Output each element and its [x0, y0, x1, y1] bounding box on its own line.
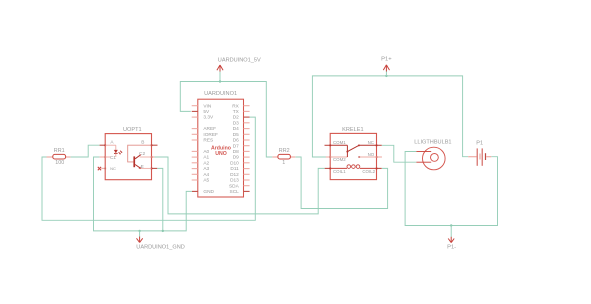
svg-text:E: E: [141, 164, 144, 170]
svg-text:A1: A1: [203, 155, 209, 161]
svg-text:D13: D13: [230, 178, 239, 184]
wire net bulb top to battery minus: [405, 152, 497, 226]
svg-text:RR1: RR1: [54, 148, 65, 154]
svg-text:D11: D11: [230, 166, 239, 172]
pin C2 of UOPT1: [139, 151, 154, 157]
svg-text:P1: P1: [476, 141, 483, 147]
battery P1: [468, 141, 491, 166]
wire net 5V rail: [180, 82, 272, 158]
svg-text:SCL: SCL: [230, 189, 240, 195]
svg-text:COM1: COM1: [333, 140, 346, 145]
supply symbol P1+: [381, 57, 392, 78]
svg-text:NC: NC: [368, 140, 374, 145]
resistor RR2: [272, 148, 295, 166]
svg-text:AREF: AREF: [203, 126, 216, 132]
LED inside UOPT1: [105, 145, 122, 157]
svg-text:IOREF: IOREF: [203, 132, 218, 138]
svg-text:D2: D2: [233, 115, 239, 121]
wire RR1 right to opto pin A: [70, 145, 99, 157]
svg-text:A2: A2: [203, 160, 209, 166]
svg-text:D5: D5: [233, 132, 239, 138]
svg-text:LLIGTHBULB1: LLIGTHBULB1: [414, 139, 451, 145]
wire net P1+ rail COM2 to battery: [312, 76, 468, 157]
svg-text:UARDUINO1_GND: UARDUINO1_GND: [136, 244, 185, 250]
pin COIL2 of KRELE1: [362, 168, 381, 174]
Arduino left pin leads: [192, 106, 198, 192]
svg-text:TX: TX: [233, 109, 240, 115]
wire net RR2 to COIL2: [295, 157, 387, 209]
svg-text:UOPT1: UOPT1: [123, 127, 142, 133]
svg-text:D9: D9: [233, 155, 239, 161]
wire net GND bus C1 to Arduino GND: [94, 157, 193, 231]
Arduino right pin leads: [244, 106, 250, 192]
wire net D2 to RR1 left: [42, 117, 255, 220]
optocoupler UOPT1 box and label: [105, 127, 151, 180]
lamp LLIGTHBULB1: [414, 139, 451, 170]
pin E of UOPT1: [141, 164, 158, 170]
supply symbol UARDUINO1_5V: [217, 57, 261, 82]
relay KRELE1 box and label: [330, 127, 376, 180]
resistor RR1: [47, 148, 71, 166]
svg-text:GND: GND: [203, 189, 214, 195]
svg-text:KRELE1: KRELE1: [342, 127, 363, 133]
svg-text:A0: A0: [203, 149, 209, 155]
svg-text:NO: NO: [368, 152, 375, 157]
svg-text:3.3V: 3.3V: [203, 115, 214, 121]
svg-text:D10: D10: [230, 160, 239, 166]
Arduino left pin labels: [203, 103, 218, 195]
wire net C2 to COIL1: [155, 157, 325, 214]
pin COIL1 of KRELE1: [325, 168, 347, 174]
svg-text:D6: D6: [233, 138, 239, 144]
coil inside KRELE1: [330, 165, 376, 169]
svg-text:COIL1: COIL1: [333, 169, 346, 174]
wire E to GND bus: [157, 168, 164, 232]
ground symbol UARDUINO1_GND: [136, 230, 185, 251]
svg-text:100: 100: [55, 160, 64, 166]
pin NO of KRELE1: [368, 152, 382, 157]
svg-text:NC: NC: [110, 166, 116, 171]
svg-text:UNO: UNO: [215, 151, 227, 157]
svg-text:UARDUINO1: UARDUINO1: [204, 91, 237, 97]
svg-text:D3: D3: [233, 120, 239, 126]
pin C1 of UOPT1: [100, 155, 117, 161]
Arduino UARDUINO1 box: [198, 91, 244, 197]
switch inside KRELE1: [330, 145, 376, 158]
svg-text:RX: RX: [232, 103, 239, 109]
svg-text:VIN: VIN: [203, 103, 211, 109]
svg-text:1: 1: [282, 160, 285, 166]
svg-text:P1-: P1-: [447, 245, 456, 251]
svg-text:C2: C2: [139, 151, 145, 157]
svg-text:A3: A3: [203, 166, 209, 172]
pin A of UOPT1: [100, 139, 115, 145]
svg-text:RES: RES: [203, 138, 213, 144]
Arduino right pin labels: [229, 103, 240, 195]
pin B of UOPT1: [141, 139, 157, 145]
svg-text:D8: D8: [233, 149, 239, 155]
svg-text:B: B: [141, 139, 144, 145]
pin terminal dots of KRELE1: [329, 145, 377, 170]
pin COM1 of KRELE1: [325, 140, 347, 145]
svg-text:COIL2: COIL2: [362, 169, 375, 174]
pin COM2 of KRELE1: [326, 157, 346, 162]
svg-text:P1+: P1+: [381, 57, 392, 63]
pin NC of KRELE1: [368, 140, 382, 145]
svg-text:D12: D12: [230, 172, 239, 178]
phototransistor inside UOPT1: [128, 145, 152, 169]
pin terminal dots of UOPT1: [104, 144, 152, 169]
svg-text:RR2: RR2: [279, 148, 290, 154]
svg-text:D4: D4: [233, 126, 239, 132]
svg-text:A5: A5: [203, 178, 209, 184]
svg-text:A4: A4: [203, 172, 209, 178]
svg-text:UARDUINO1_5V: UARDUINO1_5V: [218, 57, 261, 63]
svg-text:5V: 5V: [203, 109, 210, 115]
svg-text:COM2: COM2: [333, 157, 346, 162]
pin NC of UOPT1 with no-connect X: [98, 166, 116, 171]
svg-text:SDA: SDA: [229, 183, 240, 189]
ground symbol P1-: [447, 224, 456, 250]
wire net NC to bulb bottom: [382, 145, 417, 162]
svg-text:D7: D7: [233, 143, 239, 149]
